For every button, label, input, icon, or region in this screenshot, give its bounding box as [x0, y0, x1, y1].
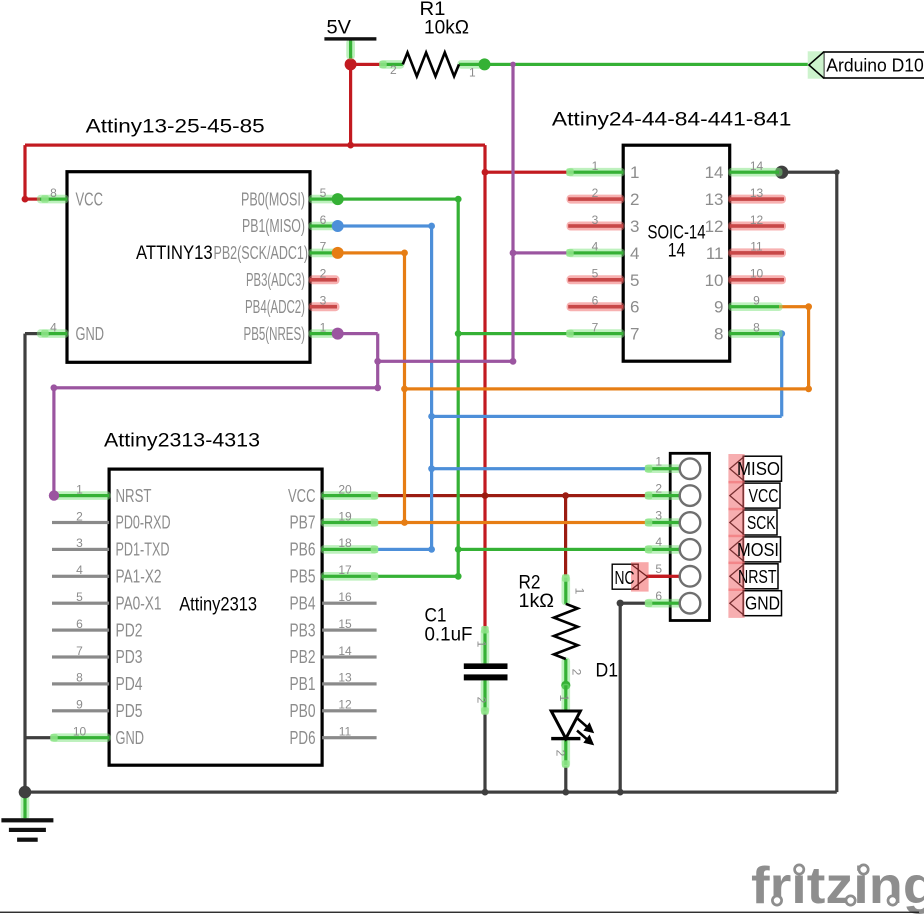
pin PB5 17 of Attiny2313 — [290, 563, 379, 586]
svg-text:6: 6 — [76, 617, 83, 631]
svg-text:14: 14 — [668, 240, 686, 262]
svg-text:2: 2 — [570, 669, 584, 676]
svg-text:1: 1 — [76, 482, 83, 496]
pin 6 of ISP header — [645, 589, 701, 614]
svg-text:14: 14 — [705, 163, 724, 182]
svg-text:10: 10 — [73, 725, 87, 739]
fritzing watermark — [751, 857, 924, 915]
node purple wire-end at NRST — [49, 490, 59, 500]
svg-text:12: 12 — [750, 213, 764, 227]
svg-text:8: 8 — [753, 320, 760, 334]
pin 3 of SOIC-14 (left) — [567, 213, 640, 236]
pin PA1-X2 4 of Attiny2313 — [52, 563, 162, 586]
svg-text:6: 6 — [320, 213, 327, 227]
pin PB3(ADC3) 2 of ATTINY13 unconnected — [246, 267, 340, 290]
svg-text:5: 5 — [320, 186, 327, 200]
connector J1 ISP header body — [670, 453, 709, 620]
power 5V symbol — [324, 17, 376, 60]
IC U2 SOIC-14 body — [623, 145, 730, 361]
pin 8 of SOIC-14 (right) — [714, 320, 782, 343]
svg-text:8: 8 — [714, 325, 723, 344]
pin 5 of SOIC-14 (left) — [567, 267, 640, 290]
svg-text:0.1uF: 0.1uF — [425, 624, 473, 646]
IC U3 Attiny2313 body — [109, 469, 322, 765]
pin VCC 8 of ATTINY13 — [37, 186, 103, 209]
svg-text:11: 11 — [706, 244, 724, 263]
svg-text:16: 16 — [338, 590, 352, 604]
svg-text:6: 6 — [630, 298, 639, 317]
svg-text:PB5: PB5 — [290, 567, 316, 587]
wire MISO blue net — [338, 224, 784, 551]
pin PB0 12 of Attiny2313 — [290, 698, 377, 721]
pin PB2(SCK/ADC1) 7 of ATTINY13 — [214, 240, 344, 263]
resistor R1 10k — [379, 0, 486, 80]
pin 7 of SOIC-14 (left) — [566, 320, 639, 343]
IC U3 Attiny2313 title — [104, 429, 260, 451]
svg-text:PB0(MOSI): PB0(MOSI) — [241, 189, 305, 209]
svg-text:1: 1 — [592, 159, 599, 173]
svg-text:1: 1 — [573, 588, 587, 595]
svg-text:5: 5 — [655, 562, 662, 576]
pin PB0(MOSI) 5 of ATTINY13 — [241, 186, 344, 209]
pin 6 of SOIC-14 (left) — [567, 294, 640, 317]
capacitor C1 0.1uF — [425, 605, 508, 715]
pin PB4(ADC2) 3 of ATTINY13 unconnected — [245, 294, 340, 317]
pin GND 10 of Attiny2313 — [50, 725, 144, 748]
svg-text:PB1(MISO): PB1(MISO) — [242, 216, 305, 236]
svg-text:GND: GND — [745, 593, 780, 614]
svg-text:GND: GND — [116, 728, 145, 748]
svg-text:20: 20 — [338, 482, 352, 496]
pin 10 of SOIC-14 (right) — [705, 267, 786, 290]
svg-text:1: 1 — [655, 455, 662, 469]
pin PB3 15 of Attiny2313 — [290, 617, 377, 640]
pin GND 4 of ATTINY13 — [37, 320, 104, 343]
svg-text:PB3(ADC3): PB3(ADC3) — [246, 270, 305, 290]
svg-text:NRST: NRST — [116, 486, 152, 506]
svg-text:9: 9 — [714, 298, 723, 317]
net label NC flag — [612, 562, 648, 591]
svg-text:10: 10 — [750, 267, 764, 281]
wire MOSI green net — [338, 198, 647, 578]
pin PA0-X1 5 of Attiny2313 — [52, 590, 162, 613]
svg-text:13: 13 — [750, 186, 764, 200]
svg-text:NC: NC — [615, 567, 635, 588]
svg-text:4: 4 — [630, 244, 639, 263]
svg-text:VCC: VCC — [288, 486, 316, 506]
svg-text:12: 12 — [338, 698, 352, 712]
resistor R2 1k — [519, 572, 587, 687]
svg-text:2: 2 — [630, 190, 639, 209]
svg-text:6: 6 — [592, 294, 599, 308]
svg-text:PB1: PB1 — [290, 674, 316, 694]
svg-text:1kΩ: 1kΩ — [519, 590, 555, 612]
junction MOSI net — [455, 196, 462, 580]
svg-text:3: 3 — [655, 508, 662, 522]
pin 13 of SOIC-14 (right) — [705, 186, 786, 209]
wire SCK orange net — [338, 251, 811, 524]
svg-text:2: 2 — [592, 186, 599, 200]
wire VCC dark-red net — [377, 494, 672, 578]
svg-text:PA1-X2: PA1-X2 — [116, 567, 162, 587]
wire 5V net red bus — [23, 56, 568, 630]
svg-text:7: 7 — [592, 320, 599, 334]
pin 5 of ISP header — [646, 562, 700, 587]
svg-text:4: 4 — [50, 320, 57, 334]
svg-text:5: 5 — [592, 267, 599, 281]
IC U1 ATTINY13 title — [86, 116, 265, 138]
svg-text:PD1-TXD: PD1-TXD — [116, 540, 170, 560]
wire GND dark-gray net — [23, 171, 838, 794]
net label NRST flag — [728, 562, 778, 591]
svg-text:PD0-RXD: PD0-RXD — [116, 513, 171, 533]
pin PB7 19 of Attiny2313 — [290, 509, 379, 532]
svg-text:4: 4 — [76, 563, 83, 577]
wire NRST purple net — [52, 64, 568, 495]
svg-text:1: 1 — [557, 695, 571, 702]
svg-text:PB0: PB0 — [290, 701, 316, 721]
svg-text:7: 7 — [630, 325, 639, 344]
svg-text:5: 5 — [630, 271, 639, 290]
svg-text:1: 1 — [469, 66, 476, 80]
svg-text:D1: D1 — [596, 660, 619, 682]
svg-text:15: 15 — [338, 617, 352, 631]
svg-text:10: 10 — [705, 271, 724, 290]
pin 1 of SOIC-14 (left) — [566, 159, 639, 182]
pin PD0-RXD 2 of Attiny2313 — [52, 509, 171, 532]
svg-text:7: 7 — [320, 240, 327, 254]
svg-text:Arduino D10: Arduino D10 — [826, 55, 924, 76]
svg-text:PB4: PB4 — [290, 593, 316, 613]
pin 1 of ISP header — [645, 455, 701, 480]
net label VCC flag — [728, 481, 780, 510]
svg-text:Attiny24-44-84-441-841: Attiny24-44-84-441-841 — [552, 109, 792, 131]
svg-text:3: 3 — [320, 294, 327, 308]
pin PD1-TXD 3 of Attiny2313 — [52, 536, 170, 559]
svg-text:2: 2 — [554, 750, 568, 757]
IC U2 Attiny24 title — [552, 109, 792, 131]
junction 5V-R1 — [22, 58, 489, 202]
pin 4 of ISP header — [645, 535, 701, 560]
svg-text:1: 1 — [630, 163, 639, 182]
svg-text:2: 2 — [76, 509, 83, 523]
svg-text:PB2: PB2 — [290, 647, 316, 667]
pin PD2 6 of Attiny2313 — [52, 617, 143, 640]
svg-text:4: 4 — [655, 535, 662, 549]
svg-text:Attiny13-25-45-85: Attiny13-25-45-85 — [86, 116, 265, 138]
junction VCC net — [482, 492, 569, 499]
svg-text:GND: GND — [76, 324, 105, 344]
node green wire-end dot — [479, 58, 491, 70]
svg-text:VCC: VCC — [749, 485, 779, 506]
pin 2 of SOIC-14 (left) — [567, 186, 640, 209]
LED D1 — [551, 660, 618, 768]
svg-text:PB7: PB7 — [290, 513, 316, 533]
svg-text:MISO: MISO — [737, 458, 780, 479]
svg-text:17: 17 — [338, 563, 352, 577]
svg-text:2: 2 — [390, 63, 397, 77]
node R2-D1 junction — [561, 681, 570, 690]
svg-text:8: 8 — [76, 671, 83, 685]
junction MISO net — [428, 223, 785, 553]
svg-text:1: 1 — [320, 320, 327, 334]
pin 9 of SOIC-14 (right) — [714, 294, 782, 317]
svg-text:PB5(NRES): PB5(NRES) — [244, 324, 306, 344]
svg-text:1: 1 — [475, 641, 489, 648]
svg-text:3: 3 — [76, 536, 83, 550]
svg-text:8: 8 — [50, 186, 57, 200]
pin 2 of ISP header — [645, 481, 701, 506]
svg-text:11: 11 — [750, 240, 763, 254]
svg-text:ATTINY13: ATTINY13 — [136, 242, 213, 264]
pin PD5 9 of Attiny2313 — [52, 698, 143, 721]
svg-text:19: 19 — [338, 509, 352, 523]
net label Arduino D10 — [808, 51, 924, 78]
svg-text:10kΩ: 10kΩ — [424, 17, 469, 39]
net label GND flag — [728, 589, 781, 618]
bottom rule — [0, 912, 919, 913]
net label SCK flag — [728, 508, 777, 537]
junction NRST net — [51, 62, 517, 392]
svg-text:3: 3 — [630, 217, 639, 236]
junction GND net — [19, 166, 840, 799]
svg-text:2: 2 — [320, 267, 327, 281]
svg-text:12: 12 — [705, 217, 724, 236]
pin 11 of SOIC-14 (right) — [706, 240, 786, 263]
svg-text:7: 7 — [76, 644, 83, 658]
svg-text:Attiny2313-4313: Attiny2313-4313 — [104, 429, 260, 451]
svg-text:14: 14 — [750, 159, 764, 173]
pin 12 of SOIC-14 (right) — [705, 213, 786, 236]
pin PD6 11 of Attiny2313 — [290, 725, 377, 748]
svg-text:13: 13 — [705, 190, 724, 209]
svg-text:5: 5 — [76, 590, 83, 604]
svg-text:4: 4 — [592, 240, 599, 254]
svg-text:2: 2 — [475, 697, 489, 704]
pin 4 of SOIC-14 (left) — [566, 240, 639, 263]
pin PD3 7 of Attiny2313 — [52, 644, 143, 667]
svg-text:PD2: PD2 — [116, 620, 143, 640]
svg-text:PB3: PB3 — [290, 620, 316, 640]
svg-text:13: 13 — [338, 671, 352, 685]
svg-text:5V: 5V — [327, 17, 352, 39]
net label MOSI flag — [728, 535, 780, 564]
pin PB1 13 of Attiny2313 — [290, 671, 377, 694]
svg-text:PD4: PD4 — [116, 674, 143, 694]
svg-text:14: 14 — [338, 644, 352, 658]
pin PB4 16 of Attiny2313 — [290, 590, 377, 613]
svg-text:9: 9 — [76, 698, 83, 712]
svg-text:VCC: VCC — [76, 189, 104, 209]
svg-text:PB6: PB6 — [290, 540, 316, 560]
svg-text:NRST: NRST — [738, 566, 777, 587]
pin 14 of SOIC-14 (right) — [705, 159, 783, 182]
pin PB5(NRES) 1 of ATTINY13 — [244, 320, 344, 343]
svg-text:2: 2 — [655, 481, 662, 495]
junction SCK net — [401, 250, 812, 526]
pin 3 of ISP header — [645, 508, 701, 533]
pin VCC 20 of Attiny2313 — [288, 482, 378, 505]
svg-text:PD5: PD5 — [116, 701, 143, 721]
svg-text:6: 6 — [655, 589, 662, 603]
svg-text:MOSI: MOSI — [737, 539, 779, 560]
pin PB6 18 of Attiny2313 — [290, 536, 379, 559]
svg-text:SCK: SCK — [747, 512, 776, 533]
IC U1 ATTINY13 body — [67, 172, 310, 363]
ground symbol — [1, 786, 53, 842]
svg-text:PD3: PD3 — [116, 647, 143, 667]
svg-text:PD6: PD6 — [290, 728, 316, 748]
svg-text:PB2(SCK/ADC1): PB2(SCK/ADC1) — [214, 243, 309, 263]
net label MISO flag — [728, 454, 781, 483]
svg-text:PB4(ADC2): PB4(ADC2) — [245, 297, 305, 317]
svg-text:PA0-X1: PA0-X1 — [116, 593, 162, 613]
svg-text:11: 11 — [339, 725, 352, 739]
pin NRST 1 of Attiny2313 — [51, 482, 152, 505]
pin PB1(MISO) 6 of ATTINY13 — [242, 213, 344, 236]
svg-text:3: 3 — [592, 213, 599, 227]
svg-text:Attiny2313: Attiny2313 — [179, 594, 257, 616]
wire Arduino D10 green — [485, 63, 810, 66]
svg-text:9: 9 — [753, 294, 760, 308]
pin PB2 14 of Attiny2313 — [290, 644, 377, 667]
pin PD4 8 of Attiny2313 — [52, 671, 143, 694]
svg-text:18: 18 — [338, 536, 352, 550]
